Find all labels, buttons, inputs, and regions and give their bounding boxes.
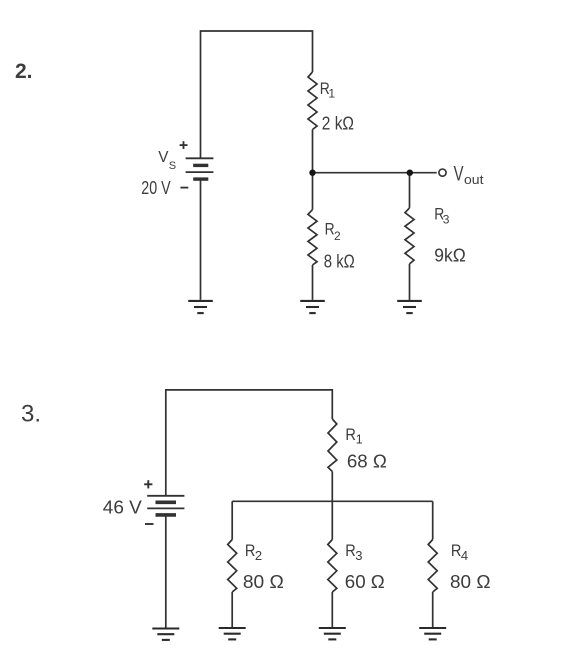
svg-text:8 kΩ: 8 kΩ [324,252,355,272]
svg-text:46 V: 46 V [103,497,142,517]
svg-text:V: V [454,163,464,186]
svg-text:V: V [158,149,169,166]
svg-text:2: 2 [334,229,341,243]
svg-text:R: R [345,541,356,560]
svg-text:R: R [245,541,256,560]
svg-text:3: 3 [443,212,450,226]
svg-text:2 kΩ: 2 kΩ [322,114,354,134]
svg-text:2: 2 [255,548,262,563]
svg-text:9kΩ: 9kΩ [434,246,466,266]
svg-text:80 Ω: 80 Ω [450,572,491,592]
svg-text:68 Ω: 68 Ω [347,451,387,471]
svg-text:4: 4 [461,548,468,563]
svg-text:60 Ω: 60 Ω [345,572,385,592]
svg-text:1: 1 [356,433,363,447]
svg-text:R: R [451,541,462,560]
svg-text:3: 3 [355,548,362,563]
svg-text:80 Ω: 80 Ω [243,572,284,592]
svg-text:out: out [464,173,484,187]
svg-text:S: S [169,160,176,172]
svg-text:2.: 2. [15,60,33,83]
svg-text:20 V: 20 V [141,178,170,198]
svg-text:R: R [345,425,356,444]
svg-text:3.: 3. [21,400,41,427]
svg-text:1: 1 [328,87,335,101]
